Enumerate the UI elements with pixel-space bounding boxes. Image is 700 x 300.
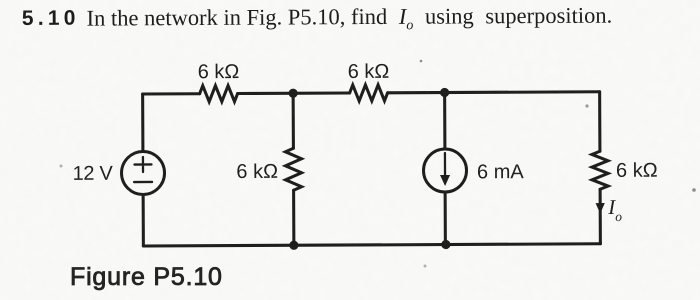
- svg-text:6 mA: 6 mA: [477, 161, 524, 183]
- current arrow Io: [596, 203, 605, 214]
- scan speck: [420, 60, 423, 63]
- wire right branch lower with Io arrow: [599, 189, 602, 243]
- figure caption: [70, 263, 223, 292]
- node D junction dot (bottom right of current source): [441, 240, 450, 249]
- scan speck: [585, 104, 588, 107]
- wire right branch upper: [598, 92, 601, 151]
- wire middle branch upper: [292, 93, 295, 148]
- problem statement text: [22, 3, 612, 37]
- resistor R2 6k (top-right horizontal): [350, 85, 388, 101]
- svg-text:Io: Io: [607, 195, 622, 224]
- current source I1 6mA: [423, 149, 466, 192]
- voltage source V1 12V: [121, 151, 164, 194]
- scan speck: [424, 265, 427, 268]
- node B junction dot (top right of R2): [440, 88, 449, 97]
- svg-text:6 kΩ: 6 kΩ: [616, 160, 658, 182]
- wire bottom: [143, 244, 600, 246]
- wire current-source branch upper: [443, 93, 446, 149]
- wire left branch upper: [141, 94, 144, 151]
- wire middle branch lower: [292, 190, 295, 245]
- resistor R4 6k (right vertical): [592, 151, 608, 189]
- svg-text:6 kΩ: 6 kΩ: [198, 61, 240, 83]
- resistor R1 6k (top-left horizontal): [200, 86, 238, 102]
- wire current-source branch lower: [444, 192, 447, 244]
- resistor R3 6k (middle vertical): [285, 148, 301, 190]
- svg-text:6 kΩ: 6 kΩ: [236, 161, 278, 183]
- wire top-right segment: [388, 92, 600, 93]
- wire top-left segment: [143, 92, 200, 95]
- scan noise texture: [0, 0, 2, 2]
- wire left branch lower: [142, 194, 145, 245]
- wire top-middle segment: [238, 91, 350, 95]
- scan speck: [60, 165, 63, 168]
- scan speck: [692, 188, 696, 192]
- node C junction dot (bottom middle): [289, 241, 298, 250]
- node A junction dot (top middle): [289, 89, 298, 98]
- svg-text:12 V: 12 V: [73, 163, 114, 185]
- svg-text:6 kΩ: 6 kΩ: [348, 61, 390, 83]
